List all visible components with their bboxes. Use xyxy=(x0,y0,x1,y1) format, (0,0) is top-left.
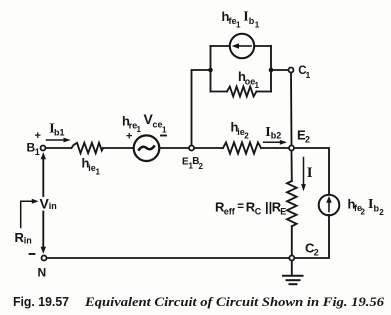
wire R_eff to C2 xyxy=(291,226,293,255)
junction node dot right xyxy=(269,68,274,73)
svg-text:+: + xyxy=(35,130,41,142)
junction node dot left xyxy=(208,68,213,73)
current source h_fe2*I_b2 xyxy=(319,195,340,216)
wire E1B2 riser xyxy=(192,70,211,145)
ground xyxy=(291,261,293,275)
terminal C2 xyxy=(289,256,294,261)
wire h_ie1 to voltage source xyxy=(103,147,134,149)
arrow I_b1 xyxy=(47,139,65,141)
wire V_in down lower segment with arrow down xyxy=(42,212,44,249)
wire node to C1 xyxy=(271,69,288,71)
minus sign voltage source xyxy=(161,135,166,137)
wire parallel box top rail left xyxy=(211,45,230,47)
svg-text:Equivalent Circuit of Circuit: Equivalent Circuit of Circuit Shown in F… xyxy=(84,294,385,309)
terminal E2 xyxy=(289,146,294,151)
terminal C1 xyxy=(289,68,294,73)
wire B1 down upper segment with V_in arrow up xyxy=(42,158,44,196)
svg-text:I: I xyxy=(307,165,313,181)
wire E1B2 to h_ie2 xyxy=(195,147,223,149)
resistor h_ie1 xyxy=(72,143,104,153)
wire C1 down to E2 xyxy=(290,73,293,145)
terminal N xyxy=(42,256,47,261)
resistor h_ie2 xyxy=(223,142,261,153)
wire parallel box left vertical xyxy=(210,46,212,92)
terminal B1 xyxy=(41,146,46,151)
wire current source down to bottom rail xyxy=(295,215,329,258)
wire parallel box right vertical xyxy=(270,46,272,92)
wire h_ie2 to E2 xyxy=(261,147,288,149)
svg-text:N: N xyxy=(38,266,47,280)
voltage source U1 h_re1*V_ce1 xyxy=(134,135,160,161)
terminal E1B2 xyxy=(189,146,194,151)
wire parallel box top rail right xyxy=(254,45,271,47)
current source h_fe1*I_b1 xyxy=(230,34,254,58)
wire E2 down to R_eff xyxy=(291,151,293,181)
resistor R_eff xyxy=(287,181,297,226)
wire bottom rail C2 to N xyxy=(47,257,288,259)
R_in pointer bracket xyxy=(21,201,33,227)
wire parallel box bottom rail left xyxy=(211,91,228,93)
arrow I xyxy=(303,158,305,186)
svg-text:Fig. 19.57: Fig. 19.57 xyxy=(13,295,69,309)
minus sign near N xyxy=(30,253,35,255)
wire parallel box bottom rail right xyxy=(257,91,272,93)
arrow I_b2 xyxy=(264,141,282,143)
wire E2 right branch xyxy=(295,148,329,194)
wire B1 to h_ie1 xyxy=(46,147,71,149)
svg-text:+: + xyxy=(126,131,132,143)
resistor h_oe1 xyxy=(227,87,257,97)
wire voltage source to E1B2 xyxy=(160,147,189,149)
